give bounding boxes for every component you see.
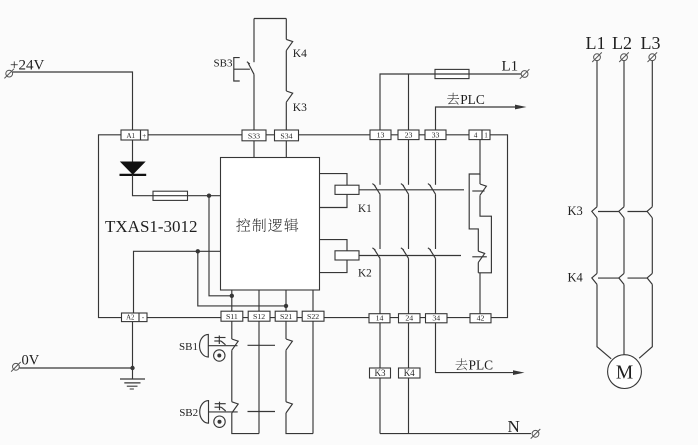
svg-text:1: 1 xyxy=(484,132,488,140)
svg-text:S11: S11 xyxy=(226,312,238,321)
svg-text:L1: L1 xyxy=(586,33,606,53)
svg-text:24: 24 xyxy=(405,314,413,323)
svg-text:SB1: SB1 xyxy=(179,341,198,353)
svg-text:K3: K3 xyxy=(293,102,307,114)
svg-text:PLC: PLC xyxy=(460,92,485,107)
svg-text:14: 14 xyxy=(376,314,384,323)
svg-text:+: + xyxy=(142,132,146,140)
svg-text:4: 4 xyxy=(474,132,478,140)
svg-text:S33: S33 xyxy=(248,132,260,141)
svg-text:0V: 0V xyxy=(22,353,40,369)
svg-text:K3: K3 xyxy=(375,368,386,378)
svg-text:33: 33 xyxy=(432,130,440,139)
svg-text:A1: A1 xyxy=(126,132,135,140)
svg-text:K4: K4 xyxy=(293,48,307,60)
svg-text:K1: K1 xyxy=(358,203,372,215)
svg-text:N: N xyxy=(508,417,520,436)
svg-text:K4: K4 xyxy=(568,271,584,285)
svg-text:K3: K3 xyxy=(568,204,583,218)
svg-text:34: 34 xyxy=(432,314,440,323)
svg-text:23: 23 xyxy=(405,130,413,139)
svg-text:S12: S12 xyxy=(253,312,265,321)
svg-text:L3: L3 xyxy=(641,33,661,53)
svg-text:SB3: SB3 xyxy=(214,58,233,70)
svg-text:K4: K4 xyxy=(404,368,415,378)
svg-text:S22: S22 xyxy=(307,312,319,321)
svg-text:S34: S34 xyxy=(280,132,292,141)
svg-text:42: 42 xyxy=(477,314,485,323)
svg-text:+24V: +24V xyxy=(10,58,44,74)
svg-text:A2: A2 xyxy=(126,315,135,322)
svg-text:L1: L1 xyxy=(502,59,519,75)
svg-text:PLC: PLC xyxy=(469,358,494,373)
svg-text:M: M xyxy=(616,363,633,384)
svg-text:SB2: SB2 xyxy=(179,407,198,419)
svg-text:TXAS1-3012: TXAS1-3012 xyxy=(105,217,198,236)
svg-text:S21: S21 xyxy=(280,312,292,321)
svg-text:L2: L2 xyxy=(612,33,632,53)
svg-text:13: 13 xyxy=(377,130,385,139)
svg-text:K2: K2 xyxy=(358,268,372,280)
